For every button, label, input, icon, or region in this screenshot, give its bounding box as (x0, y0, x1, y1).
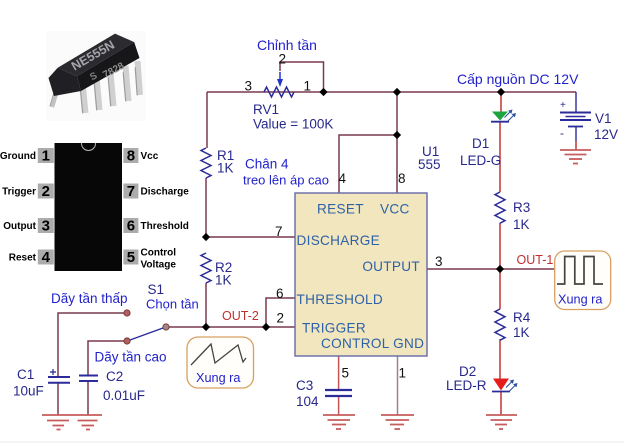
pin number 1 (399, 366, 407, 381)
wire: R4 to D2 (499, 339, 501, 379)
svg-text:3: 3 (435, 254, 443, 269)
svg-text:Chọn tần: Chọn tần (146, 297, 199, 312)
pin number 5 (342, 366, 350, 381)
svg-text:0.01uF: 0.01uF (103, 388, 145, 403)
svg-text:TRIGGER: TRIGGER (302, 320, 366, 335)
svg-text:V1: V1 (595, 111, 612, 126)
svg-text:VCC: VCC (380, 202, 410, 217)
battery V1 (560, 92, 618, 150)
switch S1 (124, 282, 169, 344)
pinout pin 6 (123, 218, 188, 235)
chip pins front (83, 61, 141, 113)
node: trigger-R2 junction (202, 323, 210, 331)
label Chan 4 treo len ap cao (243, 157, 329, 188)
svg-text:1: 1 (42, 148, 50, 165)
svg-text:Trigger: Trigger (2, 187, 36, 198)
svg-text:5: 5 (127, 249, 135, 266)
left stray pin (52, 80, 60, 107)
resistor R1 (201, 148, 234, 178)
wire: S1 low contact to C1 (58, 313, 127, 377)
pin number 2 (277, 311, 285, 326)
ground under C1/C2 (shared top bar) (42, 415, 102, 430)
svg-text:Xung ra: Xung ra (558, 293, 603, 307)
svg-text:Dãy tần cao: Dãy tần cao (95, 350, 167, 365)
node: pin8 rail junction (393, 88, 401, 96)
resistor R4 (495, 309, 531, 340)
svg-text:DISCHARGE: DISCHARGE (297, 233, 381, 248)
svg-text:Vcc: Vcc (141, 151, 159, 162)
waveform box sawtooth (OUT-2) (187, 337, 254, 388)
svg-text:6: 6 (127, 218, 135, 235)
wire: R2 to bottom node (205, 283, 207, 327)
svg-text:Value = 100K: Value = 100K (253, 117, 333, 132)
svg-text:Voltage: Voltage (141, 260, 177, 271)
wire: OUT-1 node to R4 (499, 269, 501, 309)
wire: pin 3 output (427, 268, 555, 270)
ground under D2 (486, 415, 517, 429)
svg-text:555: 555 (418, 157, 441, 172)
label Chinh tan (257, 37, 317, 53)
svg-text:C2: C2 (106, 369, 123, 384)
svg-text:Control: Control (141, 248, 177, 259)
pin number 7 (275, 224, 283, 239)
capacitor C1 (13, 367, 70, 399)
label Day tan thap (51, 291, 128, 306)
svg-text:8: 8 (127, 148, 135, 165)
node: RV1 pin1 junction (319, 88, 327, 96)
IC U1 555 box (295, 144, 441, 356)
svg-text:R4: R4 (513, 310, 531, 325)
pinout pin 3 (3, 218, 54, 235)
svg-text:+: + (560, 100, 566, 111)
wire: R1 to node below (205, 178, 207, 237)
svg-text:5: 5 (342, 366, 350, 381)
svg-text:Threshold: Threshold (141, 221, 189, 232)
svg-text:1K: 1K (513, 325, 530, 340)
svg-text:Output: Output (3, 221, 36, 232)
node: OUT-2 junction (262, 323, 270, 331)
svg-text:OUT-1: OUT-1 (517, 253, 554, 267)
svg-text:8: 8 (398, 171, 406, 186)
svg-text:LED-R: LED-R (446, 378, 487, 393)
label Chon tan (146, 297, 199, 312)
label Day tan cao (95, 350, 167, 365)
faint scan line (0, 441, 624, 443)
wire: pin 8 drop (396, 92, 398, 193)
svg-text:12V: 12V (594, 127, 618, 142)
wire: pin 5 to C3 (338, 356, 340, 390)
wire: D2 to ground (500, 392, 502, 415)
svg-text:Xung ra: Xung ra (196, 371, 241, 385)
svg-text:C1: C1 (17, 367, 34, 382)
resistor R3 (495, 192, 530, 232)
svg-text:RV1: RV1 (253, 102, 279, 117)
svg-text:1K: 1K (217, 161, 234, 176)
wire: pin 1 to ground (397, 356, 399, 415)
svg-text:1: 1 (304, 79, 312, 94)
svg-text:S1: S1 (148, 282, 165, 297)
svg-text:Chân 4: Chân 4 (245, 157, 289, 172)
node: pin4 branch junction (393, 131, 401, 139)
svg-text:-: - (560, 126, 564, 140)
label Cap nguon DC 12V (457, 71, 579, 87)
svg-text:2: 2 (277, 311, 285, 326)
svg-text:treo lên áp cao: treo lên áp cao (243, 173, 329, 188)
pinout pin 2 (2, 183, 54, 200)
svg-text:LED-G: LED-G (460, 153, 501, 168)
pinout pin 4 (9, 249, 54, 266)
pinout pin 5 (123, 248, 176, 271)
wire: left column top (rail to R1) (206, 92, 208, 148)
wire: bottom rail to pin 2 (166, 326, 295, 328)
capacitor C2 (79, 369, 145, 403)
svg-text:4: 4 (42, 249, 51, 266)
wire: C1 to ground (57, 383, 59, 415)
svg-text:1: 1 (399, 366, 407, 381)
waveform box square (OUT-1) (555, 251, 611, 310)
svg-text:6: 6 (276, 286, 284, 301)
wire: top rail (207, 91, 576, 93)
svg-text:Dãy tần thấp: Dãy tần thấp (51, 291, 128, 306)
wire: pin 4 branch (339, 135, 397, 193)
svg-text:R3: R3 (513, 200, 530, 215)
svg-text:2: 2 (279, 52, 287, 67)
pinout pin 7 (123, 183, 189, 200)
pinout pin 8 (123, 148, 158, 165)
chip photo NE555N (46, 31, 146, 121)
chip body (58, 34, 135, 77)
label OUT-1 (517, 253, 554, 267)
svg-text:3: 3 (245, 79, 253, 94)
svg-text:CONTROL GND: CONTROL GND (321, 336, 424, 351)
pin number 6 (276, 286, 284, 301)
capacitor C3 (296, 378, 352, 409)
wire: RV1 pin 2 loop (280, 62, 324, 92)
svg-text:Discharge: Discharge (141, 187, 190, 198)
wire: node to pin 7 (206, 236, 295, 238)
pinout diagram: IC body (55, 137, 123, 272)
node: D1 rail junction (497, 88, 505, 96)
svg-text:Ground: Ground (0, 151, 36, 162)
potentiometer RV1 (245, 52, 334, 132)
wire: elbow to pin 6 (266, 298, 295, 327)
wire: D1 to R3 (499, 122, 501, 192)
svg-text:Reset: Reset (9, 253, 37, 264)
label OUT-2 (222, 309, 259, 323)
svg-text:Chỉnh tần: Chỉnh tần (257, 37, 317, 53)
wire: rail to D1 (500, 92, 502, 112)
wire: C2 to ground (87, 381, 89, 415)
ground under pin 1 (381, 415, 414, 429)
wire: S1 high contact to C2 (88, 341, 127, 375)
LED D2 red (446, 364, 518, 393)
svg-text:D2: D2 (459, 364, 476, 379)
svg-text:OUTPUT: OUTPUT (362, 259, 420, 274)
svg-text:OUT-2: OUT-2 (222, 309, 259, 323)
svg-text:7: 7 (275, 224, 283, 239)
svg-text:1K: 1K (513, 217, 530, 232)
svg-text:3: 3 (42, 218, 50, 235)
wire: R3 to OUT-1 node (499, 223, 501, 269)
node: discharge junction (202, 233, 210, 241)
pin number 4 (339, 171, 347, 186)
ground under C3 (323, 415, 355, 429)
resistor R2 (201, 253, 232, 288)
svg-text:2: 2 (42, 183, 50, 200)
svg-text:D1: D1 (472, 136, 489, 151)
svg-text:4: 4 (339, 171, 347, 186)
svg-text:1K: 1K (215, 273, 232, 288)
svg-text:Cấp nguồn DC 12V: Cấp nguồn DC 12V (457, 71, 579, 87)
ground under V1 (560, 150, 591, 164)
LED D1 green (460, 110, 516, 169)
svg-text:THRESHOLD: THRESHOLD (297, 292, 384, 307)
node: OUT-1 junction (496, 265, 504, 273)
svg-text:C3: C3 (296, 378, 313, 393)
pinout pin 1 (0, 148, 54, 165)
svg-text:RESET: RESET (317, 202, 364, 217)
svg-text:104: 104 (296, 394, 319, 409)
svg-text:10uF: 10uF (13, 384, 44, 399)
wire: C3 to ground (338, 396, 340, 415)
pin number 8 (398, 171, 406, 186)
svg-text:7: 7 (127, 183, 135, 200)
pin number 3 (435, 254, 443, 269)
